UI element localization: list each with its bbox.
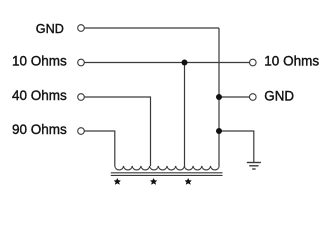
junction dot ground branch [216, 128, 222, 134]
terminal 40 Ohms left [78, 94, 85, 101]
inductor winding L1 scallops [115, 166, 219, 170]
junction dot at 10 Ohms tap [182, 60, 188, 66]
wire 10 Ohms left terminal to right terminal [84, 62, 249, 64]
polarity star 2 [150, 178, 156, 184]
wire to ground symbol [219, 131, 254, 162]
svg-text:10 Ohms: 10 Ohms [264, 53, 319, 68]
junction dot right GND terminal [216, 94, 222, 100]
svg-text:GND: GND [36, 22, 64, 36]
svg-text:GND: GND [264, 88, 294, 103]
wire tap 10 Ohms vertical x=185 [184, 63, 186, 167]
svg-text:40 Ohms: 40 Ohms [12, 88, 67, 103]
transformer core (double line) [111, 173, 223, 176]
terminal GND left [78, 25, 85, 32]
terminal 10 Ohms left [78, 59, 85, 66]
wire 90 Ohms to winding start [84, 131, 115, 166]
wire vertical GND net x=219 [218, 28, 220, 166]
terminal 90 Ohms left [78, 128, 85, 135]
polarity star 1 [114, 178, 120, 184]
svg-text:90 Ohms: 90 Ohms [12, 122, 67, 137]
wire 40 Ohms to tap [84, 97, 150, 166]
wire GND-left to top corner [84, 27, 219, 29]
ground symbol [247, 163, 261, 170]
polarity star 3 [185, 178, 191, 184]
wire right GND terminal [219, 96, 250, 98]
terminal 10 Ohms right [250, 59, 257, 66]
svg-text:10 Ohms: 10 Ohms [12, 53, 67, 68]
terminal GND right [250, 94, 257, 101]
